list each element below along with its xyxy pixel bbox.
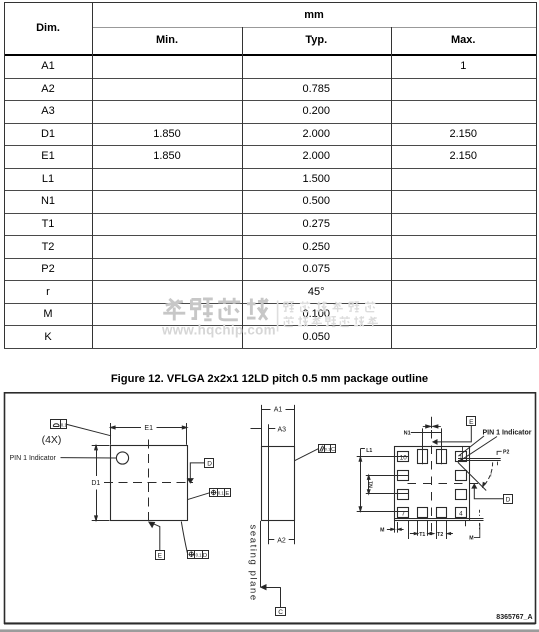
svg-text:D1: D1 [91,480,100,487]
svg-text:D: D [203,553,207,559]
svg-text:T2: T2 [437,532,443,538]
svg-text:r: r [490,473,492,479]
svg-text:PIN 1 Indicator: PIN 1 Indicator [483,430,532,437]
svg-text:A3: A3 [278,426,287,433]
svg-text:E: E [225,491,229,497]
svg-text:8365767_A: 8365767_A [496,614,532,621]
svg-text:E: E [469,419,474,426]
svg-text:L1: L1 [366,448,372,454]
svg-text:N1: N1 [369,481,375,488]
svg-text:10: 10 [400,454,408,461]
svg-text:E: E [158,552,163,559]
svg-text:C: C [331,447,335,453]
svg-text:E1: E1 [144,425,153,432]
svg-text:0.1: 0.1 [61,423,67,428]
svg-text:D: D [207,461,212,468]
svg-text:T1: T1 [419,532,425,538]
svg-text:0.1: 0.1 [218,491,224,496]
svg-text:N1: N1 [404,431,411,437]
svg-text:P2: P2 [503,449,509,455]
svg-text:(4X): (4X) [42,434,62,446]
svg-text:M: M [380,527,384,533]
svg-text:C: C [278,609,283,616]
svg-text:D: D [506,496,511,503]
svg-text:0.1: 0.1 [196,552,202,557]
svg-text:seating plane: seating plane [248,525,259,602]
svg-text:A2: A2 [277,537,286,544]
svg-text:4: 4 [459,511,463,518]
svg-text:A1: A1 [274,407,283,414]
svg-text:PIN 1 Indicator: PIN 1 Indicator [10,455,57,462]
svg-text:M: M [469,536,473,542]
